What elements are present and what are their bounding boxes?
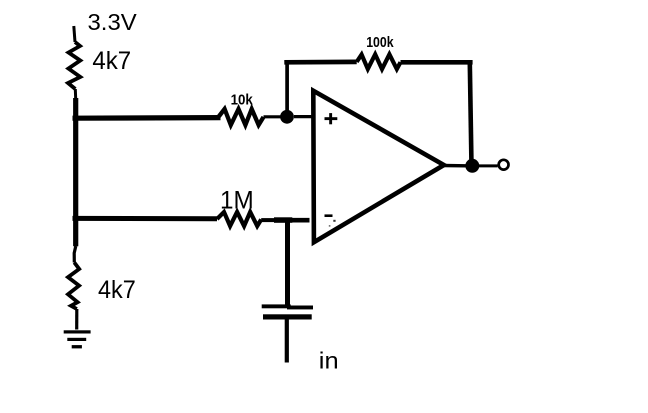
svg-text:4k7: 4k7 xyxy=(98,276,136,304)
svg-text:4k7: 4k7 xyxy=(92,47,131,75)
svg-text:3.3V: 3.3V xyxy=(88,9,138,35)
svg-text:10k: 10k xyxy=(231,92,254,109)
svg-text:1M: 1M xyxy=(220,187,254,215)
svg-text:100k: 100k xyxy=(366,35,394,51)
svg-text:in: in xyxy=(319,347,339,373)
